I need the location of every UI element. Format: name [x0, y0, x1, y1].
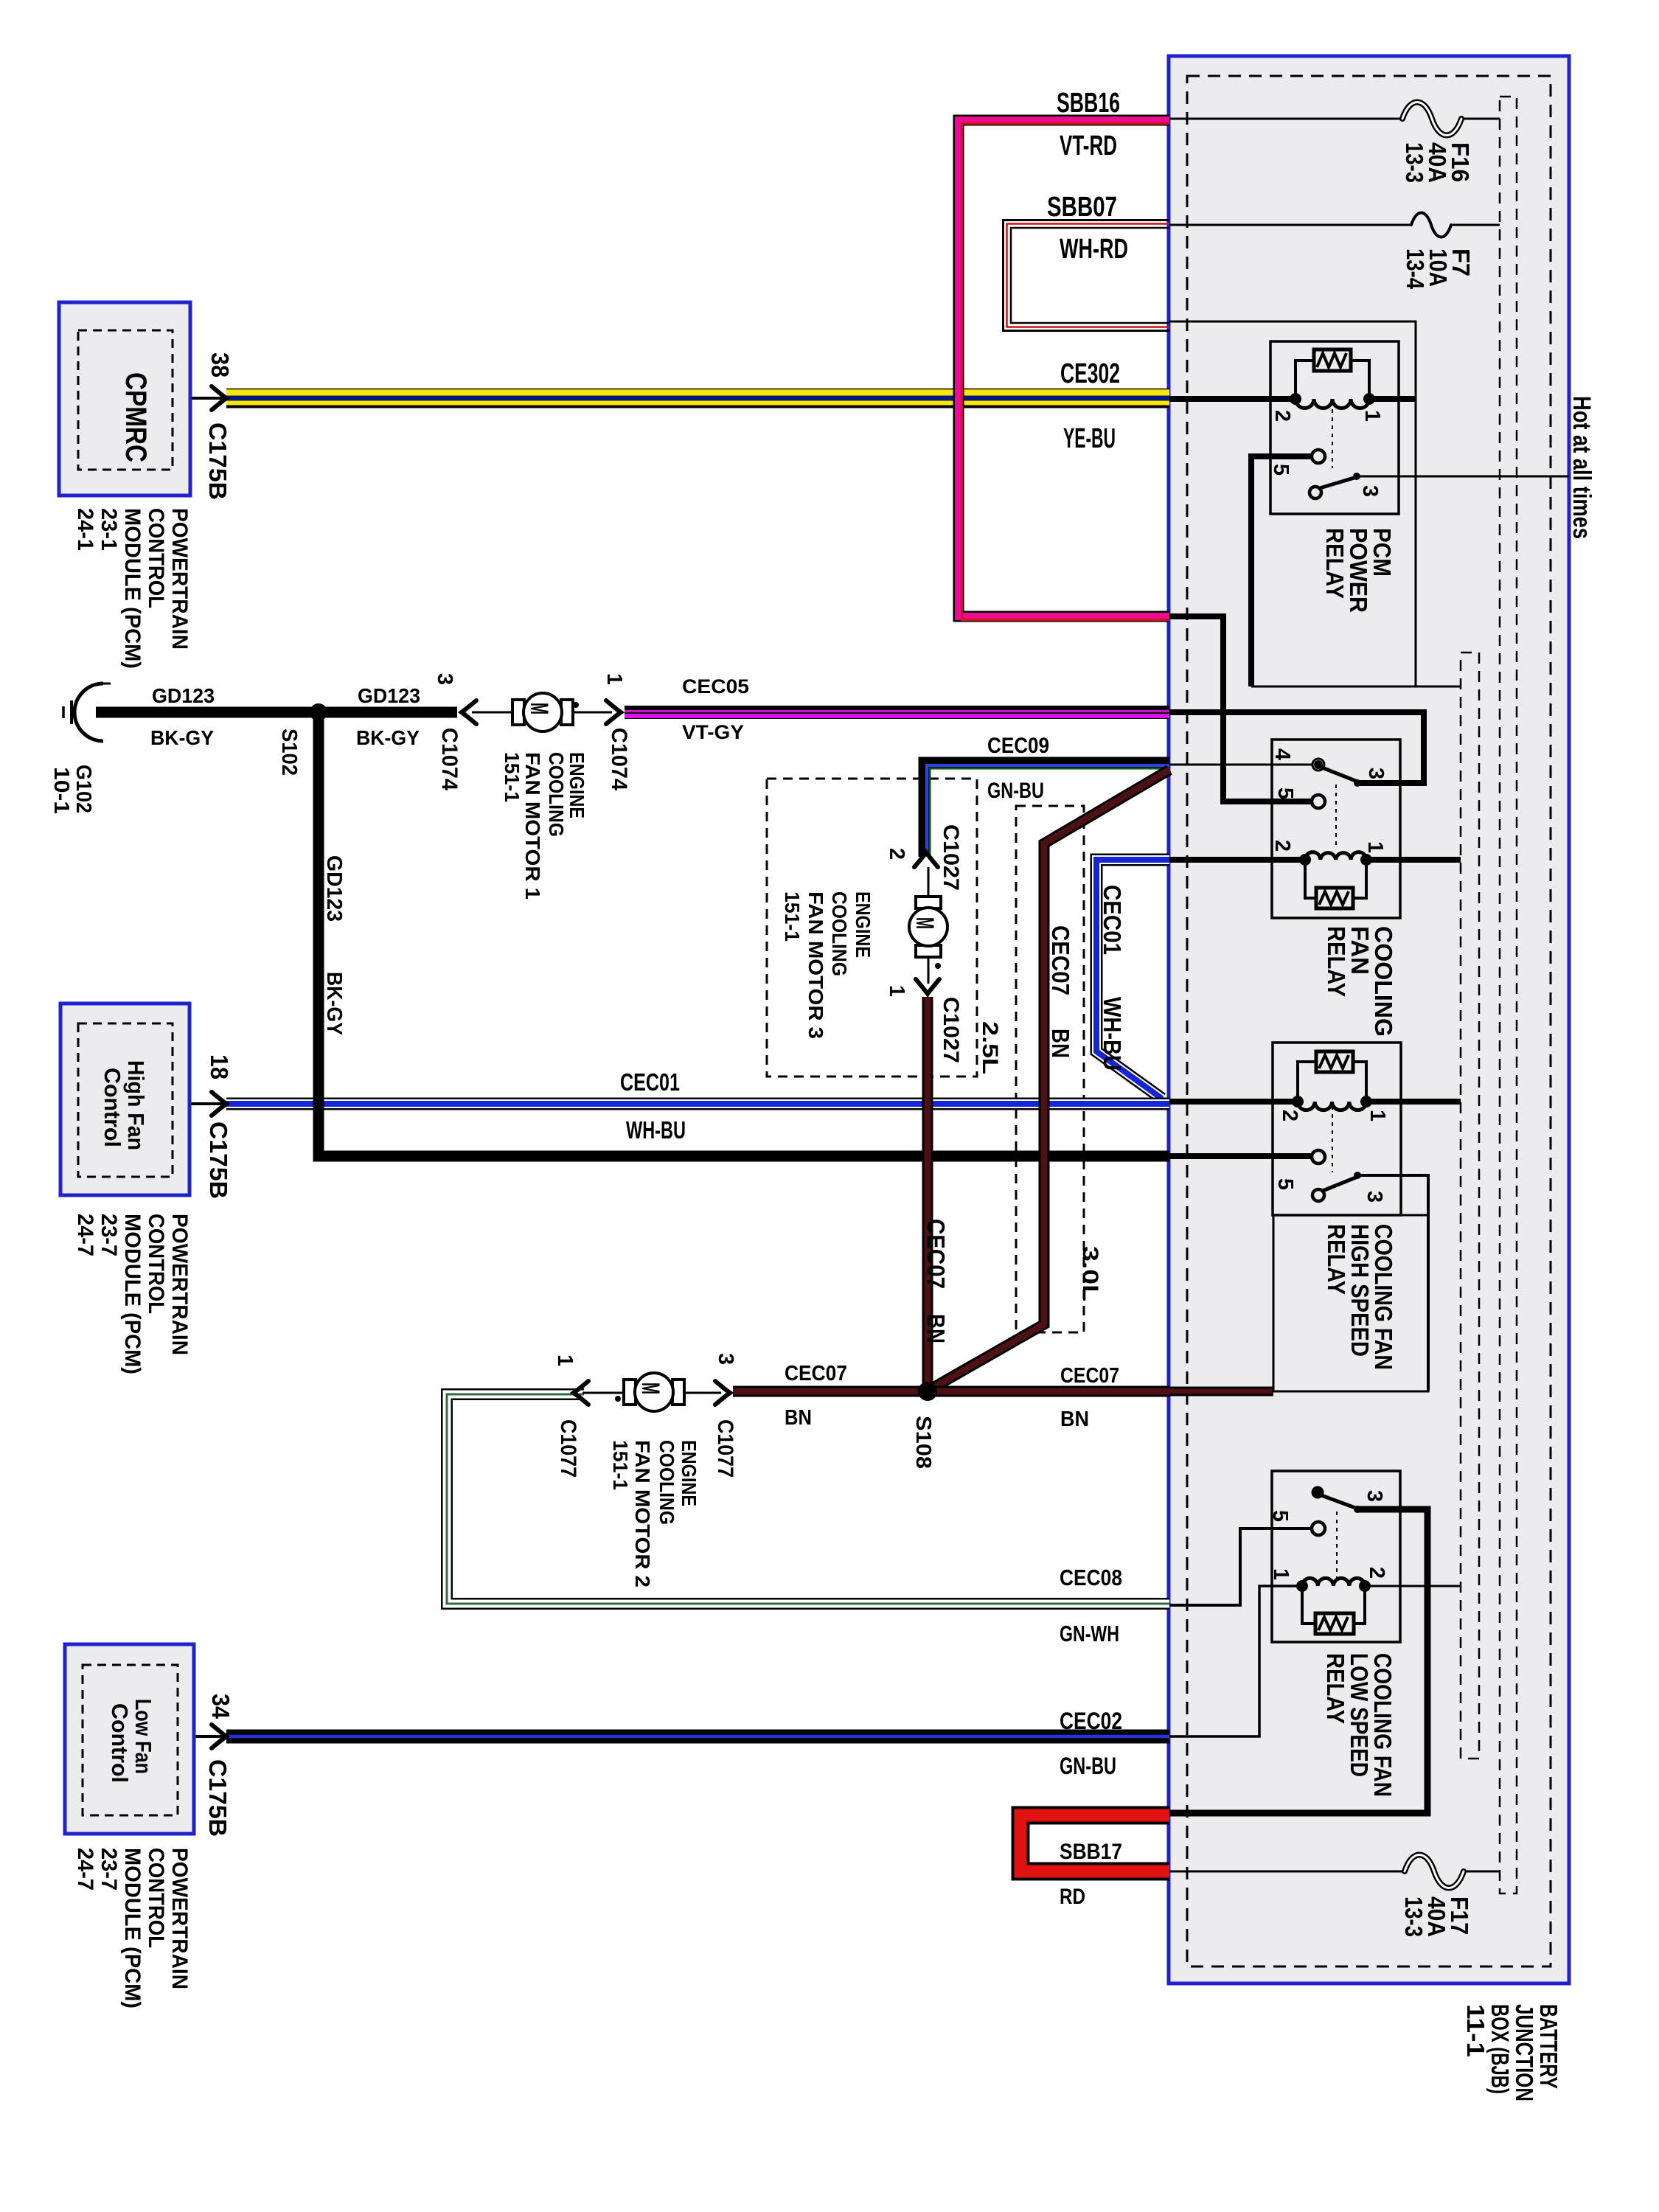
svg-text:1: 1 [602, 673, 626, 685]
svg-text:CEC07: CEC07 [1060, 1364, 1119, 1388]
svg-text:C1027: C1027 [939, 997, 963, 1063]
svg-text:CEC02: CEC02 [1060, 1708, 1122, 1734]
cooling fan relay switch arm [1322, 768, 1361, 787]
BJB hot-feed dashed bus A [1500, 97, 1517, 1893]
low fan control pin 34 wire stub [194, 1735, 223, 1738]
connector arrow C1077 pin 3 [715, 1381, 730, 1405]
3.0L engine dashed box [1016, 806, 1084, 1332]
wire high speed relay pin 3 to CEC07 [1357, 1175, 1428, 1391]
module box high fan control [60, 1004, 189, 1195]
svg-text:C1074: C1074 [607, 728, 631, 790]
svg-text:BK-GY: BK-GY [150, 726, 214, 749]
connector arrow C175B pin 34 [212, 1725, 226, 1748]
cooling fan relay coil junction dots [1299, 854, 1372, 866]
label POWERTRAIN CONTROL MODULE (PCM) 23-7 24-7 low fan [73, 1848, 192, 2008]
svg-text:FAN MOTOR 1: FAN MOTOR 1 [521, 752, 544, 900]
BJB internal dashed bus B [1461, 653, 1479, 1759]
cooling fan relay resistor [1316, 888, 1353, 908]
low speed relay switch arm [1321, 1495, 1361, 1513]
svg-text:S108: S108 [911, 1416, 935, 1469]
wire CEC07 BN from cooling fan relay area down to S108 [931, 770, 1169, 1389]
svg-text:COOLING: COOLING [655, 1440, 678, 1525]
PCM relay pin label 1 [1360, 410, 1384, 422]
svg-text:CEC07: CEC07 [922, 1219, 950, 1289]
svg-text:ENGINE: ENGINE [852, 891, 874, 958]
wire CEC02 inside BJB to low speed relay coil pin 1 [1169, 1586, 1302, 1736]
svg-text:POWERTRAIN: POWERTRAIN [167, 508, 192, 650]
label G102 10-1 [49, 765, 95, 814]
label BK-GY right [356, 726, 420, 749]
svg-text:CEC07: CEC07 [1047, 925, 1074, 995]
cooling fan relay pin label 4 [1270, 748, 1294, 760]
cooling fan relay pin label 5 [1273, 787, 1297, 799]
svg-text:151-1: 151-1 [781, 891, 804, 942]
wire low speed relay pin 3 to SBB17 [1169, 1509, 1427, 1813]
high speed relay switch arm [1323, 1172, 1361, 1191]
svg-text:BK-GY: BK-GY [356, 726, 420, 749]
svg-text:1: 1 [553, 1354, 577, 1366]
svg-text:VT-RD: VT-RD [1060, 131, 1117, 161]
svg-text:CEC01: CEC01 [1099, 885, 1126, 955]
label 3 C1074 left [433, 673, 462, 790]
fan motor 3 wire stubs [928, 867, 930, 984]
svg-text:FAN MOTOR 3: FAN MOTOR 3 [804, 891, 827, 1039]
svg-text:C175B: C175B [204, 422, 232, 500]
wire CE302 inside BJB to PCM relay coil pin 2 [1169, 396, 1295, 402]
svg-text:RELAY: RELAY [1323, 926, 1350, 997]
svg-text:SBB16: SBB16 [1057, 88, 1120, 119]
label S102 [277, 728, 301, 776]
connector arrow C1027 pin 1 [916, 979, 939, 994]
fuse F17 40A [1405, 1855, 1464, 1888]
svg-text:2: 2 [1278, 1110, 1301, 1121]
svg-text:24-7: 24-7 [73, 1214, 97, 1256]
svg-text:BN: BN [922, 1314, 950, 1343]
wire CEC08 inside BJB to low speed relay pin 5 [1169, 1528, 1312, 1605]
wire SBB17 RD loop from fuse F17 to low speed relay [1020, 1815, 1169, 1871]
high speed relay pin label 2 [1278, 1110, 1301, 1121]
label 2.5L [978, 1021, 1002, 1074]
PCM relay coil junction dots [1290, 393, 1375, 405]
svg-text:VT-GY: VT-GY [682, 721, 744, 743]
wire SBB16 inside BJB to cooling fan relay pin 5 [1169, 616, 1312, 801]
connector arrow C1074 pin 1 [606, 700, 621, 724]
svg-text:4: 4 [1270, 748, 1294, 760]
svg-text:GD123: GD123 [322, 855, 346, 922]
label CEC05 [682, 675, 749, 698]
svg-text:3: 3 [714, 1353, 737, 1365]
low speed relay resistor [1315, 1613, 1354, 1634]
svg-text:34: 34 [207, 1694, 234, 1719]
high fan control pin 18 wire stub [189, 1102, 223, 1105]
PCM relay switch link [1332, 409, 1333, 468]
svg-text:M: M [636, 1382, 664, 1394]
label WH-BU [626, 1116, 686, 1144]
label Low Fan Control [107, 1699, 156, 1783]
svg-text:M: M [525, 703, 553, 714]
label 18 [206, 1054, 233, 1079]
wire CEC07 BN horizontal through S108 to BJB [733, 1386, 1169, 1397]
svg-text:CPMRC: CPMRC [119, 372, 152, 462]
relay U4 cooling fan low speed relay inner box [1272, 1471, 1400, 1642]
svg-text:10-1: 10-1 [49, 767, 73, 814]
svg-text:1: 1 [1366, 1110, 1389, 1121]
label C175B [204, 422, 232, 500]
label GD123 right [358, 684, 420, 707]
label SBB17 [1060, 1840, 1122, 1864]
high speed relay switch link [1332, 1106, 1333, 1172]
wire CEC01 WH-BU from high fan control to high speed relay coil [226, 1098, 1169, 1110]
svg-text:CEC08: CEC08 [1060, 1565, 1122, 1590]
label S108 [911, 1416, 935, 1469]
connector arrow C1074 pin 3 [462, 700, 476, 724]
cooling fan relay pin label 1 [1363, 841, 1387, 853]
svg-text:C1077: C1077 [556, 1419, 580, 1478]
cooling fan relay pin label 2 [1270, 840, 1294, 852]
label VT-GY [682, 721, 744, 743]
PCM relay resistor [1314, 349, 1351, 371]
svg-text:CEC01: CEC01 [620, 1068, 680, 1096]
label 3 C1077 right [713, 1353, 737, 1478]
svg-text:COOLING: COOLING [545, 752, 568, 837]
svg-text:13-3: 13-3 [1400, 1896, 1427, 1937]
label VT-RD [1060, 131, 1117, 161]
label BN left of S108 [785, 1406, 812, 1430]
svg-text:11-1: 11-1 [1462, 2004, 1489, 2057]
connector arrow C1077 pin 1 [574, 1381, 588, 1405]
svg-text:23-7: 23-7 [97, 1214, 121, 1256]
wire PCM relay pin 3 hot at all times feed [1357, 476, 1569, 478]
high speed relay switch pivot [1312, 1189, 1324, 1201]
label F17 40A 13-3 [1400, 1896, 1473, 1937]
wire fuse F17 feed [1169, 1871, 1500, 1873]
svg-text:CEC05: CEC05 [682, 675, 749, 698]
svg-text:2.5L: 2.5L [978, 1021, 1002, 1074]
wire high speed relay coil line to bus B [1169, 1099, 1461, 1105]
label ENGINE COOLING FAN MOTOR 3 151-1 [781, 891, 874, 1039]
wire SBB16 VT-RD from BJB fuse F16 [959, 120, 1169, 620]
wire SBB07 to PCM relay outer box [1169, 321, 1416, 686]
wire CEC01 WH-BU branch to cooling fan relay coil [1096, 860, 1169, 1099]
low speed relay pin label 1 [1269, 1568, 1293, 1580]
svg-text:YE-BU: YE-BU [1063, 423, 1116, 454]
label F16 40A 13-3 [1401, 142, 1474, 183]
label BK-GY left [150, 726, 214, 749]
svg-text:BN: BN [1047, 1029, 1074, 1058]
label COOLING FAN HIGH SPEED RELAY [1323, 1224, 1397, 1370]
cooling fan relay pin 5 terminal [1312, 795, 1325, 808]
PCM relay pin label 5 [1269, 464, 1293, 476]
svg-text:1: 1 [885, 985, 908, 997]
label 1 C1027 bottom [885, 985, 963, 1063]
low speed relay resistor brackets [1302, 1586, 1365, 1624]
low speed relay switch pivot [1312, 1487, 1323, 1498]
cooling fan relay pin label 3 [1364, 768, 1388, 779]
cooling fan relay coil [1305, 852, 1366, 860]
PCM relay pin label 2 [1270, 410, 1294, 422]
wire GD123 BK-GY from S102 down and right to high speed relay [319, 712, 1169, 1156]
svg-text:GN-BU: GN-BU [1060, 1753, 1116, 1779]
svg-text:RELAY: RELAY [1322, 1653, 1349, 1724]
svg-text:COOLING: COOLING [828, 891, 851, 976]
motor ENGINE COOLING FAN MOTOR 2 [615, 1373, 685, 1411]
module box low fan control [65, 1644, 194, 1834]
svg-text:2: 2 [1270, 410, 1294, 422]
wire PCM relay coil pin 1 to outer box [1369, 396, 1416, 402]
fuse F7 10A [1411, 213, 1451, 237]
svg-text:CONTROL: CONTROL [144, 508, 168, 608]
wire CE302 YE-BU from CPMRC to PCM power relay coil [226, 389, 1169, 407]
label YE-BU [1063, 423, 1116, 454]
2.5L engine dashed box around fan motor 3 [767, 779, 977, 1077]
svg-text:3: 3 [1363, 1490, 1386, 1502]
svg-text:ENGINE: ENGINE [678, 1440, 700, 1506]
svg-text:151-1: 151-1 [609, 1440, 632, 1490]
svg-text:GD123: GD123 [358, 684, 420, 707]
svg-text:1: 1 [1363, 841, 1387, 853]
svg-text:C1077: C1077 [713, 1419, 737, 1478]
svg-text:CONTROL: CONTROL [144, 1214, 168, 1314]
label GD123 left [152, 684, 215, 707]
PCM relay switch pivot [1310, 487, 1321, 498]
label 2 C1027 top [885, 824, 963, 891]
label SBB16 [1057, 88, 1120, 119]
svg-text:BOX (BJB): BOX (BJB) [1486, 2004, 1514, 2094]
svg-text:3: 3 [1358, 485, 1382, 497]
svg-text:24-7: 24-7 [73, 1848, 97, 1891]
cooling fan relay switch link [1335, 785, 1337, 845]
svg-text:G102: G102 [72, 765, 95, 813]
svg-text:JUNCTION: JUNCTION [1511, 2004, 1538, 2101]
low speed relay switch link [1336, 1512, 1338, 1578]
svg-text:BK-GY: BK-GY [322, 972, 346, 1035]
svg-text:SBB17: SBB17 [1060, 1840, 1122, 1864]
cooling fan relay switch pivot [1312, 759, 1324, 771]
svg-text:3.0L: 3.0L [1078, 1246, 1102, 1301]
svg-text:GN-BU: GN-BU [987, 779, 1044, 803]
label GD123 riser [322, 855, 346, 1035]
svg-text:ENGINE: ENGINE [566, 752, 588, 818]
svg-text:Hot at all times: Hot at all times [1568, 396, 1596, 539]
CPMRC dashed inner box [78, 330, 173, 470]
low speed relay pin 5 terminal [1312, 1522, 1325, 1535]
svg-text:3: 3 [1364, 768, 1388, 779]
fuse F16 40A [1402, 102, 1461, 136]
PCM relay pin 5 terminal [1312, 450, 1325, 463]
label ENGINE COOLING FAN MOTOR 2 151-1 [609, 1440, 700, 1587]
motor ENGINE COOLING FAN MOTOR 1 [512, 693, 579, 731]
label COOLING FAN RELAY [1323, 926, 1397, 1037]
label CEC08 [1060, 1565, 1122, 1590]
relay U1 PCM power relay inner box [1270, 341, 1399, 514]
wire fuse F7 feed [1169, 224, 1500, 226]
svg-text:3: 3 [433, 673, 456, 685]
svg-text:GD123: GD123 [152, 684, 215, 707]
label 1 C1074 right [602, 673, 631, 790]
connector arrow C175B pin 18 [212, 1092, 226, 1116]
svg-text:5: 5 [1268, 1510, 1292, 1522]
svg-text:M: M [911, 917, 939, 929]
wire fuse F16 feed [1169, 118, 1500, 120]
label BN right of S108 [1060, 1408, 1089, 1431]
high speed relay label box [1273, 1215, 1428, 1391]
svg-text:C175B: C175B [204, 1759, 232, 1837]
fan motor 1 wire stubs [472, 712, 612, 714]
svg-text:BN: BN [1060, 1408, 1089, 1431]
wire PCM relay outer box bottom to bus B [1251, 686, 1461, 688]
svg-text:Low Fan: Low Fan [131, 1699, 156, 1774]
wire low speed relay coil pin 2 to bus B [1365, 1585, 1461, 1587]
label PCM POWER RELAY [1321, 528, 1396, 613]
svg-text:3: 3 [1363, 1191, 1386, 1203]
label GN-BU [987, 779, 1044, 803]
svg-text:MODULE (PCM): MODULE (PCM) [120, 1848, 145, 2008]
svg-text:RELAY: RELAY [1321, 528, 1349, 599]
svg-text:CEC09: CEC09 [987, 734, 1049, 758]
svg-text:MODULE (PCM): MODULE (PCM) [120, 1214, 145, 1374]
battery junction box (BJB) enclosure [1169, 56, 1569, 1983]
svg-text:C1074: C1074 [437, 728, 462, 790]
label CEC07 riser motor3 [922, 1219, 950, 1343]
svg-text:18: 18 [206, 1054, 233, 1079]
svg-text:WH-RD: WH-RD [1060, 234, 1128, 265]
svg-text:MODULE (PCM): MODULE (PCM) [120, 508, 145, 669]
wire cooling fan relay coil line to bus B [1169, 857, 1461, 863]
svg-text:POWERTRAIN: POWERTRAIN [167, 1214, 192, 1355]
junction S108 [918, 1382, 937, 1401]
relay U3 cooling fan high speed relay inner box [1273, 1043, 1401, 1215]
svg-text:2: 2 [1270, 840, 1294, 852]
label GN-BU low [1060, 1753, 1116, 1779]
label C175B low fan [204, 1759, 232, 1837]
label CPMRC [119, 372, 152, 462]
CPMRC pin 38 wire stub [190, 397, 223, 400]
label CEC09 [987, 734, 1049, 758]
high speed relay coil junction dots [1292, 1096, 1372, 1107]
label COOLING FAN LOW SPEED RELAY [1322, 1653, 1397, 1797]
connector arrow C1027 pin 2 [914, 852, 938, 867]
svg-text:23-1: 23-1 [97, 508, 121, 551]
high speed relay coil [1298, 1102, 1366, 1110]
label SBB07 [1047, 192, 1117, 223]
wire GD123 BK-GY ground run from G102 to S102 and fan motor 1 [96, 707, 457, 718]
label ENGINE COOLING FAN MOTOR 1 151-1 [501, 752, 588, 900]
high fan control dashed inner box [78, 1023, 173, 1177]
wire GD123 inside BJB to high speed relay pin 5 [1169, 1153, 1312, 1159]
label 38 [206, 352, 234, 378]
label CEC02 [1060, 1708, 1122, 1734]
svg-text:SBB07: SBB07 [1047, 192, 1117, 223]
svg-text:BN: BN [785, 1406, 812, 1430]
low speed relay pin label 3 [1363, 1490, 1386, 1502]
PCM relay coil [1295, 399, 1369, 408]
PCM relay pin label 3 [1358, 485, 1382, 497]
svg-text:BATTERY: BATTERY [1535, 2004, 1562, 2089]
label RD [1060, 1885, 1085, 1909]
svg-text:23-7: 23-7 [97, 1848, 121, 1891]
svg-text:2: 2 [1365, 1567, 1388, 1579]
high speed relay pin 5 terminal [1312, 1150, 1325, 1164]
high speed relay resistor brackets [1298, 1062, 1366, 1097]
svg-text:C175B: C175B [205, 1121, 232, 1199]
svg-text:24-1: 24-1 [73, 508, 97, 551]
svg-text:GN-WH: GN-WH [1060, 1621, 1119, 1646]
wire CEC05 inside BJB to cooling fan relay pin 3 [1169, 712, 1424, 783]
low speed relay coil [1302, 1578, 1365, 1586]
PCM relay switch arm [1320, 473, 1360, 488]
svg-text:WH-BU: WH-BU [626, 1116, 686, 1144]
label Hot at all times [1568, 396, 1596, 539]
relay U2 cooling fan relay inner box [1272, 740, 1400, 918]
wire CEC07 BN inside BJB to high speed relay box [1169, 1387, 1273, 1397]
motor ENGINE COOLING FAN MOTOR 3 [909, 896, 947, 969]
svg-text:5: 5 [1273, 787, 1297, 799]
svg-text:CEC07: CEC07 [785, 1362, 847, 1385]
svg-text:151-1: 151-1 [501, 752, 524, 802]
BJB inner dashed border [1187, 76, 1551, 1966]
label 34 [207, 1694, 234, 1719]
label WH-RD [1060, 234, 1128, 265]
label CEC01 [620, 1068, 680, 1096]
label CEC07 right of S108 [1060, 1364, 1119, 1388]
wire PCM relay pin 5 feed [1251, 456, 1312, 686]
label F7 10A 13-4 [1402, 248, 1475, 290]
cooling fan relay resistor brackets [1305, 860, 1366, 898]
wire CEC02 GN-BU from low fan control to low speed relay coil [226, 1730, 1169, 1744]
wire CEC09 inside BJB to cooling fan relay pin 4 [1169, 764, 1312, 766]
low fan control dashed inner box [83, 1665, 178, 1815]
svg-text:POWERTRAIN: POWERTRAIN [167, 1848, 192, 1989]
svg-text:High Fan: High Fan [123, 1060, 149, 1150]
low speed relay pin label 2 [1365, 1567, 1388, 1579]
svg-text:5: 5 [1269, 464, 1293, 476]
label POWERTRAIN CONTROL MODULE (PCM) 23-7 24-7 high fan [73, 1214, 192, 1374]
high speed relay pin label 5 [1273, 1178, 1297, 1190]
svg-text:C1027: C1027 [939, 824, 963, 891]
junction S102 [310, 703, 327, 721]
label 1 C1077 left [553, 1354, 580, 1478]
svg-text:FAN MOTOR 2: FAN MOTOR 2 [631, 1440, 654, 1587]
fan motor 2 wire stubs [582, 1392, 721, 1394]
svg-text:Control: Control [100, 1068, 125, 1147]
label POWERTRAIN CONTROL MODULE (PCM) 23-1 24-1 [73, 508, 192, 669]
svg-text:RD: RD [1060, 1885, 1085, 1909]
label C175B high fan [205, 1121, 232, 1199]
label CE302 [1060, 358, 1120, 389]
wire SBB07 WH-RD loop from fuse F7 [1004, 220, 1170, 331]
high speed relay pin label 3 [1363, 1191, 1386, 1203]
connector arrow C175B pin 38 [212, 386, 226, 410]
svg-text:13-4: 13-4 [1402, 248, 1429, 290]
low speed relay coil junction dots [1296, 1580, 1371, 1592]
wire CEC05 VT-GY from fan motor 1 to cooling fan relay [625, 712, 1169, 717]
svg-text:2: 2 [885, 848, 908, 860]
wire CEC09 GN-BU from fan motor 3 to cooling fan relay switch [925, 763, 1169, 857]
low speed relay pin label 5 [1268, 1510, 1292, 1522]
label BATTERY JUNCTION BOX (BJB) 11-1 [1462, 2004, 1562, 2101]
svg-text:CONTROL: CONTROL [144, 1848, 168, 1948]
svg-text:1: 1 [1269, 1568, 1293, 1580]
svg-text:S102: S102 [277, 728, 301, 776]
label 3.0L [1078, 1246, 1102, 1301]
svg-text:RELAY: RELAY [1323, 1224, 1350, 1295]
svg-text:1: 1 [1360, 410, 1384, 422]
svg-text:13-3: 13-3 [1401, 142, 1428, 183]
wire CEC08 GN-WH loop from fan motor 2 to low speed relay [447, 1394, 1169, 1604]
label High Fan Control [100, 1060, 149, 1150]
label CEC07 left of S108 [785, 1362, 847, 1385]
wire CEC07 BN from fan motor 3 down to S108 [922, 997, 933, 1392]
